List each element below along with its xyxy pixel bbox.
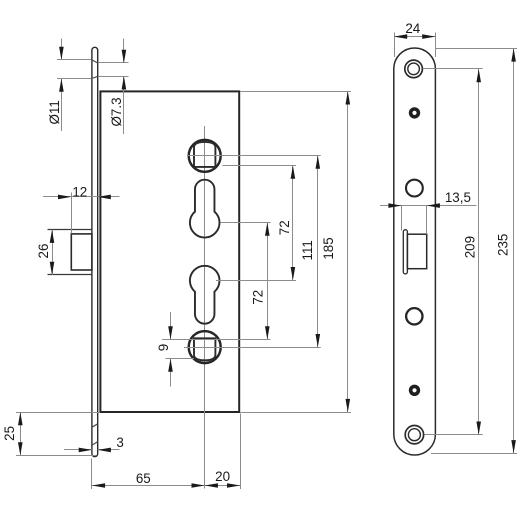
case bottom extension left (16, 412, 100, 414)
dimension O11 (61, 39, 63, 60)
lower middle hole (406, 308, 422, 324)
square1 bottom extension (223, 165, 297, 167)
dimension 72 upper (292, 166, 294, 281)
spindle1 centre extension (187, 155, 321, 157)
lower pin hole (411, 386, 419, 394)
svg-text:20: 20 (215, 469, 230, 484)
bottom screw hole (405, 426, 423, 444)
lower cylinder keyhole cutout (190, 266, 220, 324)
dimension 3 (64, 449, 92, 451)
dimension O7.3 (123, 39, 125, 64)
dimension 12 (43, 196, 120, 198)
case top extension (240, 91, 351, 93)
keyhole2 centre extension (216, 280, 296, 282)
upper middle hole (406, 180, 423, 197)
deadbolt slot bar (403, 230, 407, 274)
svg-text:111: 111 (300, 240, 315, 260)
dimension 13,5 (380, 205, 477, 207)
dimension 235 (436, 48, 517, 50)
svg-text:12: 12 (72, 184, 87, 199)
faceplate extension down (91, 459, 93, 490)
deadbolt head front (407, 234, 426, 269)
svg-text:Ø11: Ø11 (47, 100, 62, 124)
svg-text:72: 72 (277, 220, 292, 235)
countersink marks top screw hole (92, 60, 98, 63)
keyhole1 centre extension (221, 222, 271, 224)
svg-text:25: 25 (2, 426, 17, 441)
svg-text:209: 209 (463, 236, 478, 258)
lock case (100, 91, 239, 412)
svg-text:Ø7.3: Ø7.3 (109, 97, 124, 126)
top follower circle (189, 140, 221, 172)
svg-text:235: 235 (496, 234, 511, 256)
dimension 9 (170, 312, 172, 340)
spindle2 centre extension (184, 347, 321, 349)
dimension 24 (394, 33, 396, 58)
bottom follower circle (189, 331, 221, 363)
svg-text:26: 26 (36, 244, 51, 259)
upper pin hole (411, 109, 419, 117)
svg-text:3: 3 (116, 435, 123, 450)
bottom spindle square (194, 338, 215, 360)
svg-text:72: 72 (250, 290, 265, 305)
top screw hole (405, 60, 423, 78)
svg-text:9: 9 (156, 344, 171, 351)
deadbolt side view (48, 229, 92, 231)
faceplate (side view strip) (92, 47, 98, 456)
svg-text:24: 24 (405, 21, 420, 36)
vertical centre line (204, 126, 206, 489)
square2 top extension (162, 339, 271, 341)
case bottom extension right (240, 412, 351, 414)
dimension 26 (52, 230, 54, 275)
case right extension down (240, 414, 242, 490)
dimension 111 (317, 156, 319, 348)
dimension 72 lower (267, 223, 269, 340)
upper cylinder keyhole cutout (190, 180, 220, 238)
square2 bottom extension (166, 358, 195, 360)
svg-text:185: 185 (321, 237, 336, 259)
top spindle square (194, 142, 215, 167)
faceplate front outline (394, 48, 436, 455)
dimension 209 (424, 68, 483, 70)
countersink marks bottom screw hole (92, 424, 98, 428)
svg-text:65: 65 (136, 471, 151, 486)
svg-text:13,5: 13,5 (445, 190, 471, 205)
